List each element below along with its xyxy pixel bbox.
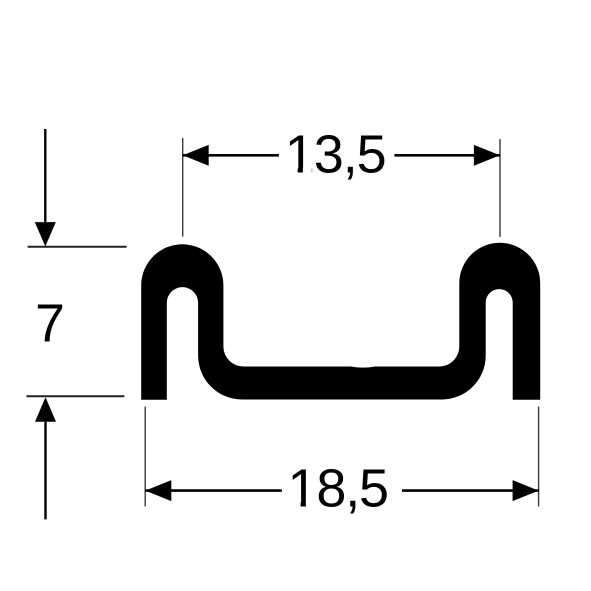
dimension 18,5 : dimension line left segment [145, 489, 282, 492]
dimension 18,5 : serif mask right of digit 1 [306, 501, 315, 508]
dimension 18,5 : left arrowhead [145, 480, 171, 501]
dimension 7 : lower leader line [44, 422, 46, 520]
dimension 7 : upper reference line [28, 246, 127, 248]
svg-text:18,5: 18,5 [288, 458, 390, 518]
dimension 13,5 : left extension line [182, 138, 184, 237]
dimension 18,5 : left extension line [144, 407, 146, 507]
dimension 18,5 : serif mask left of digit 1 [291, 501, 301, 508]
dimension 13,5 : right extension line [499, 139, 501, 237]
dimension 13,5 : serif mask right of digit 1 [303, 167, 312, 174]
dimension 7 : upper leader line [44, 129, 46, 222]
dimension 7 : down arrowhead [35, 222, 56, 246]
profile cross-section (U-channel with hooked ends) [141, 243, 540, 400]
dimension 18,5 : right arrowhead [513, 480, 539, 501]
dimension 13,5 : serif mask left of digit 1 [288, 167, 298, 174]
dimension 18,5 : dimension line right segment [402, 489, 539, 492]
svg-text:13,5: 13,5 [285, 124, 387, 184]
dimension 7 : lower reference line [27, 395, 125, 397]
dimension 7 : up arrowhead [35, 397, 56, 421]
svg-text:7: 7 [35, 295, 65, 354]
dimension 18,5 : right extension line [538, 407, 540, 507]
dimension 13,5 : right arrowhead [474, 145, 500, 166]
dimension 13,5 : dimension line left segment [183, 154, 279, 157]
dimension 13,5 : dimension line right segment [394, 154, 500, 157]
dimension 13,5 : left arrowhead [183, 145, 209, 166]
